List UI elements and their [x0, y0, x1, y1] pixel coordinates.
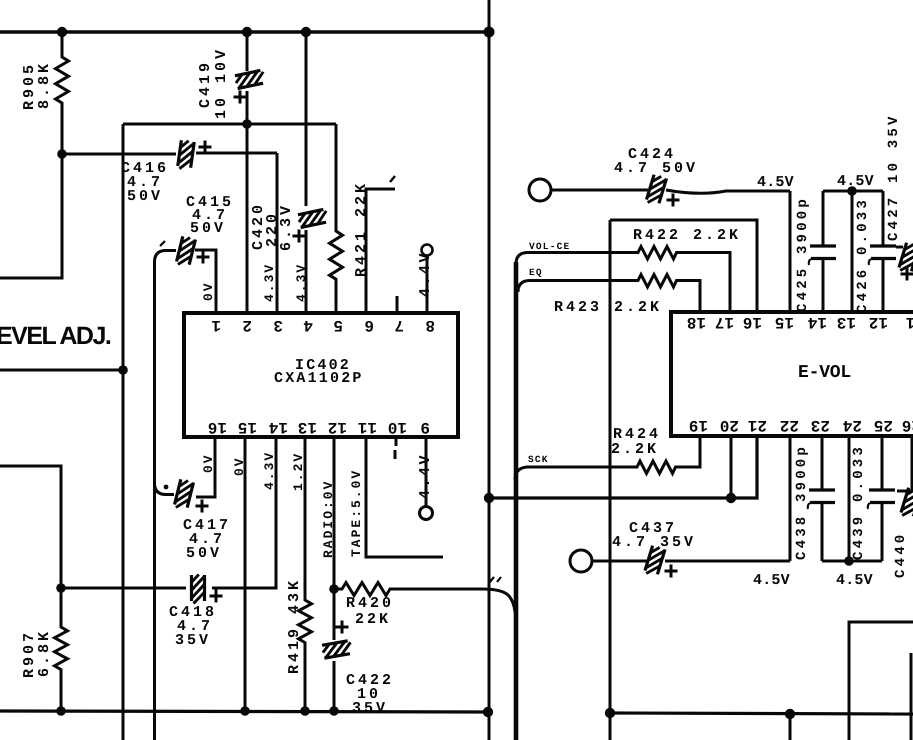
wire loop pin16 evol [610, 220, 757, 313]
capacitor C420 [293, 33, 329, 313]
node y498/pin20 [726, 493, 736, 503]
op-amp E-VOL box [671, 312, 913, 436]
wire pin11 [366, 438, 443, 557]
svg-text:26: 26 [902, 416, 913, 434]
wire bottom bus left [0, 711, 487, 712]
svg-text:C419: C419 [197, 60, 214, 108]
label C417 4.7 50V [183, 517, 231, 562]
wire pin20 evol [730, 436, 733, 498]
svg-text:12: 12 [869, 313, 888, 331]
svg-text:2.2K: 2.2K [611, 441, 659, 458]
node top bus / C419 [242, 27, 252, 37]
svg-text:11: 11 [906, 313, 913, 331]
label C420 220 6.3V [250, 202, 295, 251]
svg-text:13: 13 [298, 418, 317, 436]
svg-text:7: 7 [394, 316, 404, 334]
node bus/vertical A [483, 707, 493, 717]
svg-text:4.7 35V: 4.7 35V [612, 534, 696, 551]
svg-text:18: 18 [687, 313, 706, 331]
svg-text:4.3V: 4.3V [294, 263, 309, 302]
svg-text:R420: R420 [346, 595, 394, 612]
svg-text:50V: 50V [127, 188, 163, 205]
svg-text:4.5V: 4.5V [757, 174, 794, 191]
svg-text:R419 43K: R419 43K [286, 578, 303, 674]
svg-text:21: 21 [748, 416, 767, 434]
svg-text:25: 25 [874, 416, 893, 434]
terminal pin8 test point 4.4V [417, 245, 434, 314]
svg-text:C438 3900p: C438 3900p [794, 444, 810, 560]
wire left edge y370 [0, 369, 123, 372]
wire pin15 vertical [244, 438, 247, 711]
terminal pin9 test point 4.4V [417, 438, 434, 520]
label C437 4.7 35V [612, 520, 696, 551]
svg-text:C439 0.033: C439 0.033 [851, 444, 867, 560]
capacitor C415 [155, 236, 217, 313]
svg-text:4.3V: 4.3V [262, 451, 277, 490]
node bus/pin15 [240, 706, 250, 716]
capacitor C440 [897, 436, 913, 519]
capacitor C425 [809, 191, 836, 313]
svg-text:35V: 35V [352, 700, 388, 717]
svg-text:SCK: SCK [528, 454, 549, 465]
node 4.5V/pin13 [847, 186, 857, 196]
svg-text:13: 13 [837, 313, 856, 331]
svg-text:0V: 0V [201, 453, 216, 473]
label C418 4.7 35V [169, 604, 217, 649]
label C422 10 35V [346, 672, 394, 717]
wire pin10 stub [395, 438, 396, 459]
svg-text:4.7 50V: 4.7 50V [614, 160, 698, 177]
svg-text:4.4V: 4.4V [417, 453, 434, 499]
resistor R420 [334, 577, 515, 612]
svg-text:4.5V: 4.5V [753, 572, 790, 589]
node C418 wire / R907 [56, 583, 66, 593]
wire pin13 evol [851, 191, 854, 313]
node bus right branch [785, 709, 795, 719]
svg-text:16: 16 [743, 313, 762, 331]
node y498/vertical A [484, 493, 494, 503]
svg-text:8.8K: 8.8K [36, 61, 53, 109]
resistor R423 wire eq [518, 275, 700, 314]
svg-text:0V: 0V [201, 281, 216, 301]
wire 4.5V node top right [823, 190, 883, 193]
wire vol-ce vertical bundle [514, 262, 519, 740]
svg-text:16: 16 [208, 418, 227, 436]
svg-text:24: 24 [842, 416, 862, 434]
svg-text:2: 2 [242, 316, 252, 334]
svg-text:EVEL ADJ.: EVEL ADJ. [0, 322, 111, 350]
svg-text:22: 22 [780, 416, 799, 434]
svg-text:R423 2.2K: R423 2.2K [554, 299, 662, 316]
svg-text:5: 5 [333, 316, 343, 334]
label R907 6.8K [21, 629, 53, 678]
svg-text:6: 6 [364, 316, 374, 334]
svg-text:1.2V: 1.2V [291, 452, 306, 491]
capacitor C427 [896, 242, 913, 280]
wire R905 bottom to left edge [0, 154, 62, 278]
resistor R907 [55, 588, 68, 711]
resistor R419 [299, 438, 312, 711]
node pin12 / R420 [329, 584, 339, 594]
svg-text:6.3V: 6.3V [278, 203, 295, 251]
wire pin24 evol [848, 436, 851, 561]
capacitor C424 [551, 174, 790, 206]
pin numbers IC402 top [211, 316, 435, 334]
wire pin6 to arrow [366, 176, 395, 313]
capacitor C419 [234, 33, 266, 124]
svg-text:10: 10 [388, 418, 407, 436]
svg-text:9: 9 [420, 418, 430, 436]
wire pin2 vertical [246, 124, 249, 313]
svg-text:R422 2.2K: R422 2.2K [633, 227, 741, 244]
node R905 / C416 wire [57, 149, 67, 159]
svg-text:E-VOL: E-VOL [798, 363, 851, 383]
svg-text:8: 8 [425, 316, 435, 334]
svg-text:15: 15 [238, 418, 257, 436]
svg-text:1: 1 [211, 316, 221, 334]
node C419 branch / loop top [242, 119, 252, 129]
svg-text:14: 14 [807, 313, 827, 331]
pin numbers E-VOL bottom [689, 416, 913, 434]
node x123 y370 [118, 365, 128, 375]
resistor R424 wire sck [515, 436, 700, 480]
svg-text:6.8K: 6.8K [36, 629, 53, 677]
svg-text:19: 19 [689, 416, 708, 434]
label C415 4.7 50V [186, 194, 234, 237]
svg-text:20: 20 [720, 416, 739, 434]
capacitor C417 [155, 438, 216, 513]
wire pin22 evol [789, 436, 792, 561]
wire pin7 stub [396, 296, 399, 313]
svg-text:17: 17 [715, 313, 734, 331]
resistor R905 [56, 33, 69, 154]
resistor R422 wire vol-ce [516, 247, 730, 314]
svg-text:TAPE:5.0V: TAPE:5.0V [349, 469, 364, 557]
resistor R421 [330, 124, 343, 313]
svg-text:15: 15 [775, 313, 794, 331]
svg-text:4.5V: 4.5V [837, 173, 874, 190]
wire long vertical A full height [488, 0, 491, 740]
terminal input circle to C437 [570, 550, 592, 572]
svg-text:0V: 0V [232, 456, 247, 476]
capacitor C416 [62, 140, 277, 171]
node top bus / R905 [57, 27, 67, 37]
pin numbers IC402 bottom [208, 418, 430, 436]
capacitor C422 [322, 438, 353, 711]
svg-text:4.3V: 4.3V [262, 263, 277, 302]
svg-text:C427 10 35V: C427 10 35V [886, 113, 902, 241]
wire top supply bus [0, 30, 489, 33]
svg-text:50V: 50V [186, 545, 222, 562]
wire bus branch down [789, 714, 792, 740]
wire bottom right box [849, 622, 913, 740]
capacitor C437 [592, 545, 790, 577]
svg-text:22K: 22K [355, 611, 391, 628]
capacitor C426 [869, 191, 896, 313]
op-amp IC402 box [184, 313, 458, 437]
svg-text:3: 3 [273, 316, 283, 334]
wire vertical C x610 [609, 220, 612, 740]
svg-text:RADIO:0V: RADIO:0V [321, 480, 336, 558]
capacitor C438 [808, 436, 835, 561]
svg-text:C425 3900p: C425 3900p [795, 196, 811, 312]
pin numbers E-VOL top [687, 313, 913, 331]
label C419 10 10V [197, 47, 230, 119]
node 4.5V/pin24 [844, 556, 854, 566]
wire left loop vertical x123 [122, 124, 125, 740]
label R420 22K [346, 595, 394, 628]
node bus/R907 [56, 706, 66, 716]
label C424 4.7 50V [614, 146, 698, 177]
svg-text:50V: 50V [190, 220, 226, 237]
label R424 2.2K [611, 426, 661, 458]
label IC402 CXA1102P [274, 357, 364, 387]
svg-text:4.5V: 4.5V [836, 572, 873, 589]
svg-text:VOL-CE: VOL-CE [529, 241, 570, 252]
svg-text:EQ: EQ [529, 267, 543, 278]
svg-text:C440: C440 [893, 532, 909, 578]
svg-text:12: 12 [328, 418, 347, 436]
terminal input circle to C424 [529, 179, 551, 201]
wire left edge y466 to R907 [0, 466, 61, 588]
wire 4.5V node bottom [822, 560, 882, 563]
svg-text:4: 4 [303, 316, 313, 334]
node bus/C422 [329, 706, 339, 716]
wire pin3 vertical [276, 153, 279, 313]
capacitor C418 [61, 438, 276, 604]
svg-text:23: 23 [811, 416, 830, 434]
wire C415/C417 vertical x154 [153, 262, 156, 740]
node top bus / C420 [301, 27, 311, 37]
wire pin15 evol vertical [789, 191, 792, 313]
node bus/vertical C [605, 708, 615, 718]
svg-text:10 10V: 10 10V [213, 47, 230, 119]
svg-text:C426 0.033: C426 0.033 [855, 197, 871, 313]
svg-text:35V: 35V [175, 632, 211, 649]
capacitor C439 [868, 436, 895, 561]
label C416 4.7 50V [121, 160, 169, 205]
wire loop top y124 [123, 123, 336, 126]
svg-text:CXA1102P: CXA1102P [274, 370, 364, 387]
node top bus / vertical A [484, 27, 495, 38]
wire bottom bus right [610, 713, 913, 714]
node bus/R419 [300, 706, 310, 716]
label R905 8.8K [21, 61, 53, 110]
wire bottom right vertical [910, 653, 913, 740]
svg-text:4.4V: 4.4V [417, 251, 434, 297]
wire horizontal y498 [489, 436, 757, 498]
svg-text:14: 14 [268, 418, 288, 436]
svg-text:11: 11 [358, 418, 377, 436]
